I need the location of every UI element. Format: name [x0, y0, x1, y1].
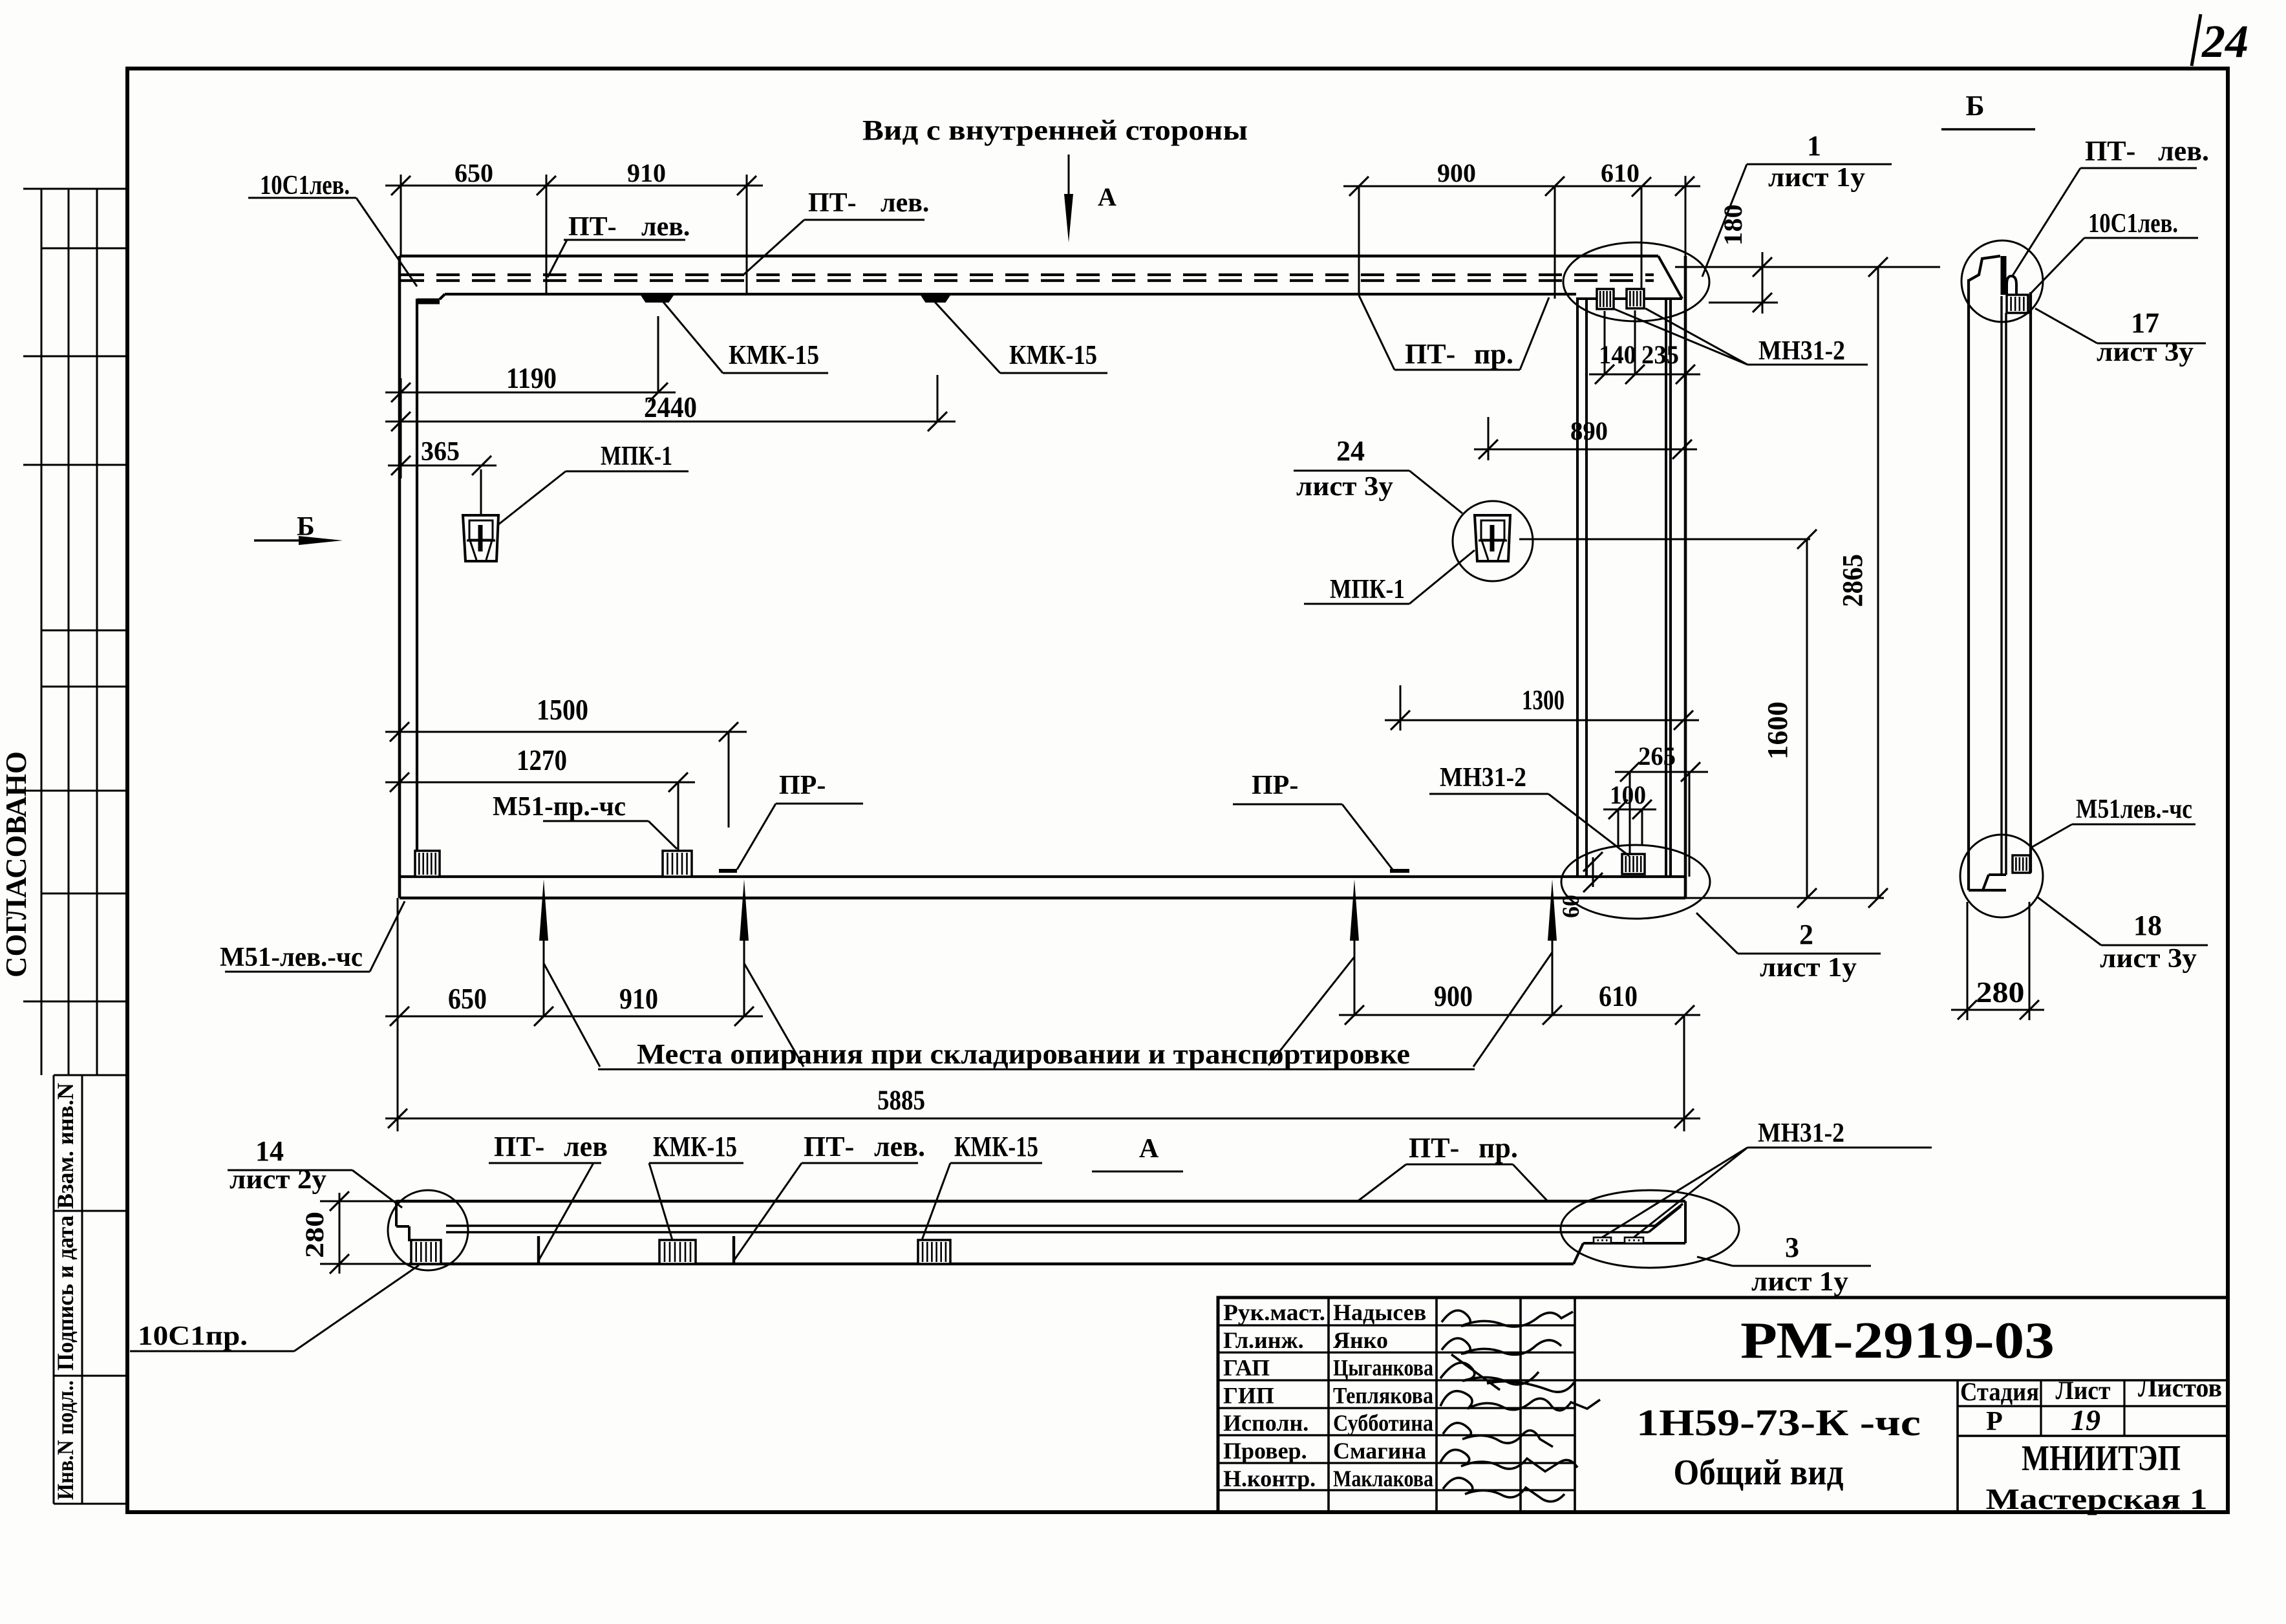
svg-text:Надысев: Надысев	[1333, 1299, 1426, 1325]
svg-text:910: 910	[627, 158, 666, 187]
svg-text:Б: Б	[1965, 90, 1984, 122]
dimension 5885	[385, 1118, 1700, 1120]
svg-text:лист 2у: лист 2у	[230, 1165, 326, 1195]
svg-text:900: 900	[1434, 980, 1473, 1012]
svg-text:60: 60	[1558, 895, 1585, 918]
svg-text:Общий вид: Общий вид	[1674, 1453, 1844, 1493]
svg-text:2440: 2440	[644, 390, 697, 423]
anchor М51-пр hatched plate	[663, 851, 692, 877]
svg-text:КМК-15: КМК-15	[1009, 341, 1097, 370]
svg-text:КМК-15: КМК-15	[653, 1131, 737, 1162]
detail circle around МПК-1	[1453, 501, 1533, 581]
panel bottom outer edge	[400, 897, 1685, 900]
svg-text:Вид с внутренней стороны: Вид с внутренней стороны	[862, 114, 1248, 146]
svg-text:650: 650	[454, 158, 493, 187]
section arrow А (top)	[1068, 155, 1070, 213]
svg-text:Маклакова: Маклакова	[1333, 1466, 1433, 1491]
approval column grid (upper left)	[41, 189, 43, 1075]
panel rib line 1	[1576, 299, 1579, 877]
svg-text:лев.: лев.	[2158, 135, 2209, 167]
svg-text:ПТ-: ПТ-	[2085, 135, 2135, 167]
svg-text:Листов: Листов	[2138, 1373, 2222, 1402]
svg-text:24: 24	[1336, 435, 1365, 467]
svg-text:10С1лев.: 10С1лев.	[2088, 209, 2178, 239]
svg-text:Гл.инж.: Гл.инж.	[1223, 1327, 1304, 1353]
svg-text:лев.: лев.	[641, 212, 690, 242]
dimension 900 bottom	[1339, 1014, 1571, 1016]
svg-text:Н.контр.: Н.контр.	[1223, 1466, 1316, 1491]
lifting loop МПК-1 right symbol	[1475, 515, 1510, 561]
svg-text:Цыганкова: Цыганкова	[1333, 1355, 1433, 1381]
dimension 610 bottom	[1552, 1014, 1700, 1016]
dimension 650 bottom	[385, 1016, 562, 1018]
svg-text:365: 365	[421, 437, 460, 467]
bottom view left end profile	[395, 1201, 398, 1226]
panel top edge	[400, 255, 1658, 258]
svg-text:610: 610	[1601, 158, 1640, 187]
svg-text:14: 14	[255, 1135, 284, 1167]
svg-text:910: 910	[619, 983, 658, 1015]
svg-text:100: 100	[1610, 780, 1646, 809]
bottom view hatched plate left 10С1пр	[411, 1240, 441, 1264]
svg-text:Провер.: Провер.	[1223, 1438, 1307, 1464]
dimension 2440	[385, 421, 956, 423]
svg-text:1300: 1300	[1522, 685, 1565, 716]
lifting notch КМК-15 right	[921, 294, 950, 302]
svg-text:3: 3	[1785, 1232, 1799, 1263]
svg-text:М51-пр.-чс: М51-пр.-чс	[493, 792, 626, 822]
svg-text:Лист: Лист	[2056, 1376, 2111, 1405]
svg-text:МПК-1: МПК-1	[601, 442, 672, 471]
svg-text:1600: 1600	[1762, 701, 1793, 760]
extension line left edge lower	[399, 718, 401, 795]
svg-text:2865: 2865	[1837, 554, 1868, 607]
dimension 100	[1603, 809, 1656, 811]
svg-text:РМ-2919-03: РМ-2919-03	[1740, 1312, 2055, 1369]
dimension 280 bottom view	[339, 1193, 341, 1274]
svg-text:Исполн.: Исполн.	[1223, 1410, 1309, 1436]
svg-text:Смагина: Смагина	[1333, 1438, 1426, 1464]
side view right face	[2029, 292, 2032, 873]
side view hatched plate bottom М51лев	[2013, 855, 2030, 873]
lifting notch КМК-15 left	[641, 294, 674, 302]
svg-text:ПР-: ПР-	[1252, 771, 1298, 800]
anchor МН31-2 hatched plate top-right	[1627, 289, 1644, 308]
svg-text:Инв.N подл..: Инв.N подл..	[52, 1380, 78, 1500]
side view inner line 2	[2005, 313, 2007, 875]
svg-text:Стадия: Стадия	[1960, 1377, 2039, 1406]
svg-text:2: 2	[1799, 919, 1813, 950]
extension line from МПК-1 circle	[1519, 539, 1810, 540]
svg-text:ПТ-: ПТ-	[1405, 338, 1455, 370]
extension lines 5885	[397, 898, 399, 1131]
panel rib line 3	[1665, 299, 1667, 877]
svg-text:10С1лев.: 10С1лев.	[260, 171, 350, 200]
svg-text:лист 3у: лист 3у	[2097, 337, 2194, 367]
svg-text:лист 1у: лист 1у	[1760, 953, 1857, 983]
svg-text:1190: 1190	[506, 362, 557, 394]
dimension 1500	[385, 731, 747, 733]
svg-text:Места опирания при складирован: Места опирания при складировании и транс…	[637, 1038, 1410, 1070]
bottom view detail circle left	[388, 1190, 468, 1270]
side view top hook profile	[1969, 256, 2000, 281]
side view ПТ loop arch	[2007, 276, 2016, 295]
dimension 180 vertical	[1762, 252, 1764, 314]
dimension 280 side view	[1951, 1009, 2044, 1011]
bottom view МН31-2 flat plate left	[1594, 1237, 1611, 1243]
svg-text:Р: Р	[1986, 1407, 2003, 1437]
svg-text:лев.: лев.	[874, 1131, 925, 1162]
dimension 910 top	[546, 185, 763, 187]
dimension 900 top-right	[1343, 186, 1571, 187]
dimension 365	[388, 465, 497, 467]
extension line left edge upper	[400, 378, 402, 478]
svg-text:Взам. инв.N: Взам. инв.N	[52, 1083, 78, 1209]
dimension 1270	[385, 782, 695, 784]
svg-text:1: 1	[1807, 130, 1821, 162]
anchor М51 hatched plate bottom-left	[415, 851, 440, 877]
bottom view ПТ tick right	[732, 1236, 735, 1264]
anchor МН31-2 hatched plate top-left	[1597, 289, 1614, 309]
svg-text:МН31-2: МН31-2	[1758, 1118, 1844, 1148]
bottom view top edge	[396, 1200, 1685, 1202]
svg-text:ПТ-: ПТ-	[494, 1131, 544, 1162]
dimension 610 top-right	[1555, 186, 1700, 187]
svg-text:24: 24	[2201, 16, 2249, 67]
svg-text:19: 19	[2071, 1404, 2100, 1437]
svg-text:А: А	[1139, 1134, 1159, 1164]
panel top-left corner step	[417, 299, 440, 304]
svg-text:18: 18	[2133, 910, 2162, 941]
side view left face	[1967, 279, 1970, 890]
bottom view right end profile	[1574, 1243, 1583, 1264]
svg-text:Мастерская 1: Мастерская 1	[1986, 1482, 2208, 1515]
svg-text:ПТ-: ПТ-	[808, 188, 857, 218]
svg-text:ПТ-: ПТ-	[568, 212, 617, 242]
panel top inner band line	[445, 293, 1576, 295]
svg-text:лист 1у: лист 1у	[1751, 1267, 1848, 1297]
dimension 365 extension to МПК-1	[480, 469, 482, 516]
panel rib line 4	[1669, 299, 1672, 877]
panel right outer edge	[1684, 256, 1687, 898]
side view bottom profile	[1969, 889, 2006, 892]
svg-text:КМК-15: КМК-15	[954, 1131, 1038, 1162]
svg-text:лист 3у: лист 3у	[1296, 472, 1393, 502]
svg-text:лев.: лев.	[881, 188, 929, 218]
panel bottom edge extension line	[1685, 897, 1884, 899]
panel hidden edge dashed lines	[401, 273, 1654, 276]
dimension 910 bottom	[544, 1016, 763, 1018]
bottom view МН31-2 flat plate right	[1625, 1237, 1643, 1243]
svg-text:лев: лев	[564, 1131, 608, 1162]
svg-text:5885: 5885	[877, 1085, 925, 1116]
side view top bar	[2001, 256, 2007, 295]
svg-text:ГИП: ГИП	[1223, 1382, 1274, 1408]
svg-text:МН31-2: МН31-2	[1758, 336, 1845, 366]
svg-text:пр.: пр.	[1479, 1132, 1518, 1164]
panel left inner edge	[416, 299, 418, 877]
dimension 650 top	[385, 185, 562, 187]
side view detail circle bottom	[1960, 835, 2043, 917]
svg-text:265: 265	[1638, 742, 1676, 771]
dimension 1190	[385, 392, 676, 394]
panel right edge upper extension	[1685, 176, 1687, 256]
side view detail circle top	[1961, 240, 2043, 322]
bottom view ПТ tick left	[537, 1236, 540, 1264]
svg-text:Субботина: Субботина	[1333, 1410, 1433, 1436]
extension lines top dims	[400, 175, 402, 256]
bottom view hatched plate КМК-15 right	[918, 1240, 950, 1264]
support arrows места опирания	[539, 879, 548, 941]
svg-text:1270: 1270	[517, 744, 567, 776]
stamp column grid (lower left)	[53, 1075, 55, 1504]
svg-text:Рук.маст.: Рук.маст.	[1223, 1299, 1325, 1325]
svg-text:10С1пр.: 10С1пр.	[138, 1321, 248, 1351]
bottom view inner pair line 1	[446, 1224, 1655, 1227]
svg-text:890: 890	[1570, 416, 1608, 445]
title block signature table grid	[1327, 1298, 1330, 1512]
dimension 1600 vertical	[1806, 539, 1808, 898]
svg-text:М51лев.-чс: М51лев.-чс	[2076, 795, 2192, 824]
anchor МН31-2 hatched plate bottom	[1622, 854, 1645, 874]
panel rib line 2	[1585, 299, 1588, 877]
svg-text:650: 650	[448, 983, 487, 1015]
svg-text:МПК-1: МПК-1	[1330, 575, 1405, 604]
side view hatched plate top 10С1лев	[2007, 295, 2028, 313]
svg-text:Янко: Янко	[1333, 1327, 1388, 1353]
handwritten signatures	[1442, 1310, 1573, 1327]
svg-text:КМК-15: КМК-15	[729, 341, 819, 370]
dimension 140 and 235	[1589, 374, 1700, 376]
support leader lines to text	[544, 963, 600, 1067]
detail ellipse bottom-right	[1561, 845, 1710, 919]
svg-text:СОГЛАСОВАНО: СОГЛАСОВАНО	[0, 751, 32, 978]
svg-text:235: 235	[1641, 340, 1679, 369]
svg-text:лист 3у: лист 3у	[2100, 944, 2197, 974]
svg-text:МНИИТЭП: МНИИТЭП	[2022, 1438, 2181, 1479]
svg-text:ПТ-: ПТ-	[1409, 1132, 1459, 1164]
panel top-right chamfer	[1658, 256, 1682, 299]
svg-text:1Н59-73-К -чс: 1Н59-73-К -чс	[1636, 1402, 1921, 1444]
svg-text:280: 280	[300, 1212, 329, 1258]
svg-text:Подпись и дата: Подпись и дата	[52, 1215, 78, 1371]
svg-text:280: 280	[1976, 976, 2025, 1009]
panel bottom inner edge	[400, 875, 1684, 878]
bottom view inner pair line 2	[446, 1231, 1649, 1234]
svg-text:ПР-: ПР-	[779, 771, 826, 800]
svg-text:пр.: пр.	[1474, 338, 1513, 370]
bottom view hatched plate КМК-15 left	[659, 1240, 696, 1264]
svg-text:ПТ-: ПТ-	[804, 1131, 854, 1162]
panel left outer edge	[398, 256, 401, 898]
svg-text:Теплякова: Теплякова	[1333, 1382, 1433, 1408]
side view inner line 1	[2000, 296, 2002, 875]
lifting loop МПК-1 left symbol	[463, 515, 498, 561]
bottom view detail ellipse right	[1561, 1190, 1739, 1268]
bottom view bottom edge	[409, 1263, 1574, 1265]
svg-text:1500: 1500	[537, 694, 588, 726]
title block outer box	[1218, 1298, 2228, 1512]
dimension 1300	[1385, 720, 1699, 721]
svg-text:17: 17	[2131, 307, 2159, 339]
svg-text:лист 1у: лист 1у	[1768, 163, 1865, 193]
dimension 265	[1615, 771, 1708, 773]
dimension 890	[1474, 449, 1697, 451]
svg-text:610: 610	[1599, 980, 1638, 1012]
title block right section grid	[1575, 1379, 2228, 1382]
extension lines top-right dims	[1358, 187, 1360, 295]
svg-text:А: А	[1098, 182, 1116, 211]
svg-text:МН31-2: МН31-2	[1440, 763, 1526, 793]
panel rib top line	[1576, 297, 1682, 300]
svg-text:ГАП: ГАП	[1223, 1355, 1270, 1381]
detail ellipse top-right	[1563, 242, 1709, 321]
svg-text:М51-лев.-чс: М51-лев.-чс	[220, 943, 363, 972]
dimension 2865 vertical	[1877, 267, 1879, 898]
svg-text:900: 900	[1437, 158, 1476, 187]
